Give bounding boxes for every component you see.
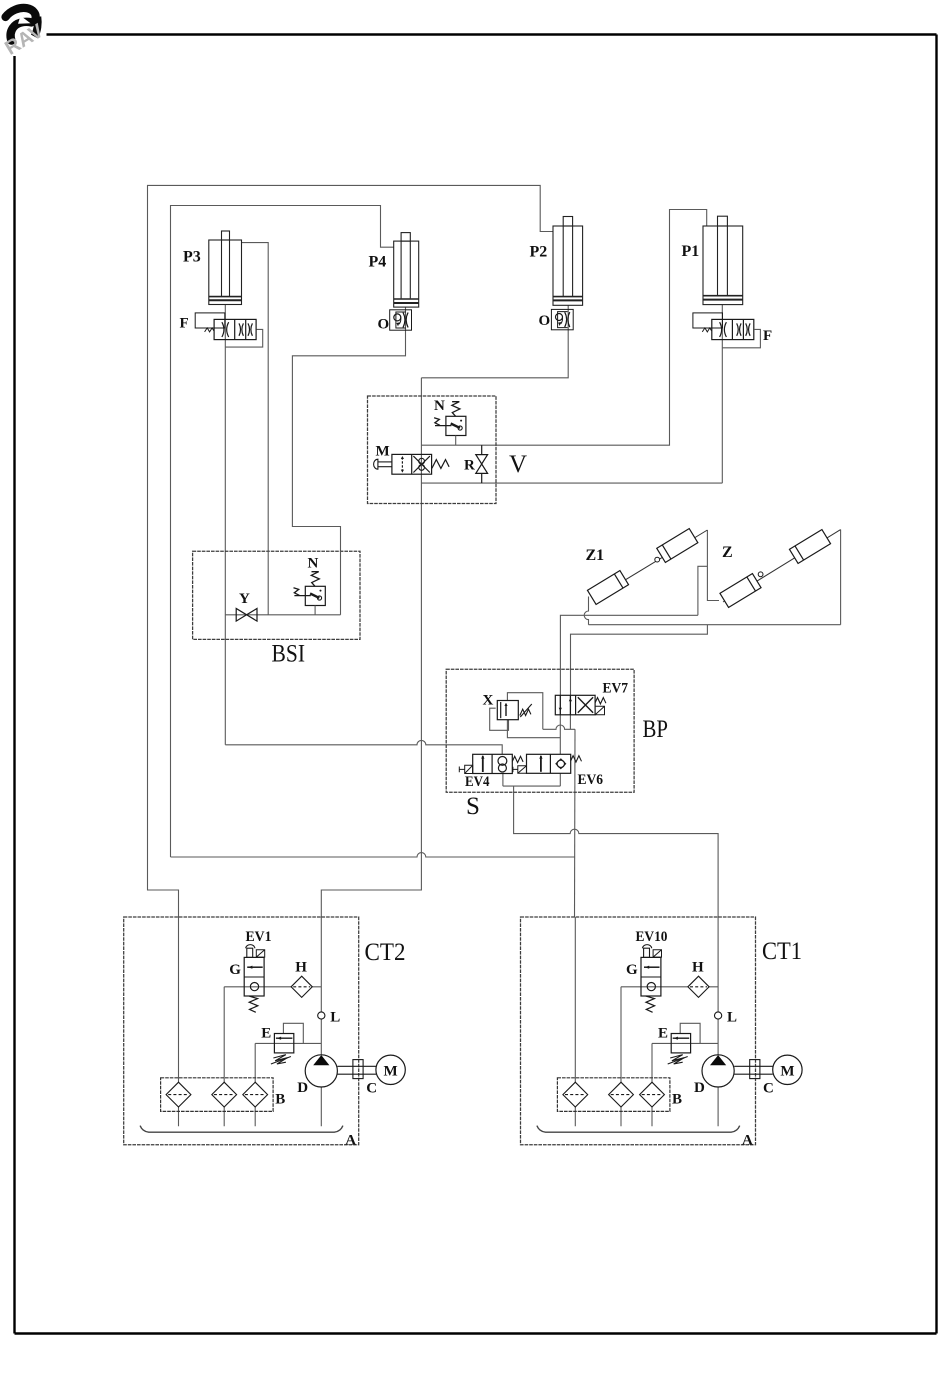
shut-off valve R inside V bbox=[476, 445, 488, 483]
relief valve N inside V bbox=[434, 402, 466, 446]
shut-off valve Y bbox=[236, 609, 257, 622]
wire BSI internal manifold bbox=[225, 551, 340, 615]
svg-text:Z: Z bbox=[722, 544, 733, 561]
manifold block V (dashed enclosure) bbox=[368, 396, 497, 504]
Z1 upper cylinder bbox=[657, 529, 698, 563]
block BP (dashed enclosure) bbox=[446, 669, 634, 792]
wire P1 main line through F valve down to V block bbox=[721, 305, 723, 484]
svg-text:CT1: CT1 bbox=[762, 938, 802, 965]
svg-text:P2: P2 bbox=[530, 244, 548, 261]
svg-text:M: M bbox=[376, 444, 390, 460]
svg-text:EV10: EV10 bbox=[636, 929, 668, 945]
Z upper cylinder bbox=[789, 530, 830, 564]
valve O at P4 (compensated flow regulator) bbox=[390, 310, 412, 330]
svg-text:EV7: EV7 bbox=[603, 681, 629, 697]
power unit CT2 bbox=[124, 917, 406, 1149]
wire tap from Z1 line to row A bbox=[698, 566, 708, 615]
cylinder P3 bbox=[209, 231, 242, 305]
svg-text:F: F bbox=[180, 316, 189, 332]
wire P4 main line through O valve down to BSI bbox=[292, 307, 405, 551]
Z1 small circle joint bbox=[655, 557, 660, 562]
solenoid valve EV4 bbox=[459, 754, 523, 773]
valve F at P3 (pilot operated check block) bbox=[195, 313, 263, 347]
Z1 lower cylinder bbox=[587, 571, 628, 605]
latch cylinder group Z1: axis line bbox=[593, 530, 707, 600]
wire Z1 lower cylinder down to row B (hop over row A) bbox=[584, 597, 588, 625]
relief valve N inside BSI bbox=[294, 572, 326, 615]
svg-text:EV1: EV1 bbox=[246, 929, 272, 945]
logo bbox=[1, 8, 48, 60]
wire bus A: top manifold to P2 and down to CT2 left filter bbox=[148, 185, 554, 917]
svg-text:S: S bbox=[466, 793, 480, 820]
wire EV4 output down and right to CT1 pump line (hop over EV6 line) bbox=[514, 786, 719, 917]
svg-text:P3: P3 bbox=[183, 249, 201, 266]
wire junction line y857 to EV6/CT1 line (hop over V center line) bbox=[171, 853, 575, 857]
wire BSI output to BP EV4 (hop over V center line) bbox=[225, 740, 502, 754]
latch cylinder group Z: axis line bbox=[723, 530, 841, 602]
svg-text:Z1: Z1 bbox=[586, 547, 605, 564]
wire P2 main line through O valve to V block bbox=[421, 305, 568, 378]
wire bus B: second manifold to P4 and down to junction line y857 bbox=[171, 206, 394, 858]
wire P3 main line down through F valve and BSI bbox=[224, 305, 226, 745]
svg-text:O: O bbox=[539, 313, 551, 329]
svg-text:P4: P4 bbox=[369, 254, 387, 271]
svg-text:R: R bbox=[464, 458, 475, 474]
manual valve M inside V bbox=[374, 454, 450, 474]
wire Z apex line down to row B bbox=[840, 530, 842, 625]
valve F at P1 (pilot operated check block) bbox=[693, 313, 761, 348]
solenoid valve EV7 bbox=[555, 695, 606, 715]
svg-text:EV4: EV4 bbox=[465, 774, 490, 790]
cylinder P2 bbox=[553, 217, 583, 306]
Z small circle joint bbox=[758, 572, 763, 577]
wire row C to BP EV7 second line bbox=[571, 625, 708, 696]
wire V block center line down to CT2 pump bbox=[321, 378, 421, 918]
svg-text:X: X bbox=[483, 693, 494, 709]
svg-text:P1: P1 bbox=[682, 243, 700, 260]
pressure valve X bbox=[497, 701, 532, 720]
svg-text:BSI: BSI bbox=[272, 641, 306, 668]
svg-text:F: F bbox=[763, 328, 772, 344]
wire V block to P1 top feed bbox=[421, 210, 706, 446]
solenoid valve EV6 bbox=[513, 754, 582, 773]
wire row B bbox=[589, 624, 841, 626]
Z lower cylinder bbox=[720, 574, 761, 608]
valve O at P2 (compensated flow regulator) bbox=[551, 309, 573, 329]
wire Z1 top line down to Z cylinder rod bbox=[707, 530, 719, 601]
wire EV6 line from BP down into CT1 left filter bbox=[574, 729, 577, 917]
svg-text:BP: BP bbox=[643, 716, 669, 743]
svg-text:CT2: CT2 bbox=[365, 939, 406, 966]
wire V block lower line to P1 F valve bbox=[421, 482, 722, 484]
svg-text:N: N bbox=[434, 398, 445, 414]
block BSI (dashed enclosure) bbox=[193, 551, 360, 639]
power unit CT1 bbox=[521, 917, 803, 1149]
cylinder P1 bbox=[703, 216, 743, 304]
svg-text:Y: Y bbox=[239, 591, 250, 607]
wire BP internal: X valve top line to EV7 drain (hop over EV7-EV6 line) bbox=[490, 693, 575, 786]
wire P3 rod side to BSI bbox=[242, 243, 269, 552]
svg-text:V: V bbox=[509, 451, 527, 478]
svg-text:EV6: EV6 bbox=[578, 772, 604, 788]
svg-text:O: O bbox=[378, 317, 390, 333]
cylinder P4 bbox=[394, 233, 419, 308]
svg-text:N: N bbox=[308, 556, 319, 572]
wire row A to BP EV7 bbox=[560, 615, 698, 695]
